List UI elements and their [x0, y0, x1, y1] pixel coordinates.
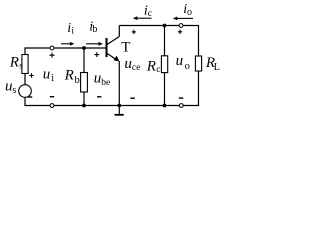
svg-text:b: b [92, 24, 97, 35]
transistor T [107, 36, 120, 60]
polarity + of u_s [29, 73, 33, 77]
wire left branch vertical [24, 47, 26, 106]
svg-text:u: u [176, 53, 184, 69]
resistor R_s [22, 55, 28, 74]
wire emitter drop [118, 61, 120, 106]
node: output terminal top [179, 24, 183, 28]
svg-text:b: b [75, 75, 80, 86]
svg-text:s: s [12, 85, 16, 96]
current arrow i_i [61, 42, 74, 46]
emitter diagonal [107, 53, 117, 60]
emitter arrowhead [114, 56, 120, 62]
svg-text:L: L [214, 62, 220, 73]
svg-text:be: be [101, 78, 110, 88]
polarity + of u_ce [132, 30, 136, 34]
wire collector riser [118, 26, 120, 37]
polarity + of u_i [49, 53, 54, 58]
node: junction dot R_c bottom [163, 104, 167, 108]
node: junction dot R_c top [163, 24, 167, 28]
svg-text:u: u [94, 70, 102, 86]
node: junction dot emitter/ground [117, 104, 121, 108]
ground [115, 106, 124, 115]
wire R_b branch [83, 48, 85, 106]
svg-text:u: u [5, 78, 13, 94]
svg-text:c: c [156, 65, 160, 75]
node: output terminal bottom [179, 104, 183, 108]
resistor R_b [81, 73, 88, 93]
polarity - of u_i [50, 96, 54, 98]
resistor R_L [195, 56, 201, 71]
base bar [106, 38, 108, 57]
polarity + of u_be [94, 52, 99, 57]
wire top-right rail [119, 25, 198, 27]
svg-text:R: R [146, 58, 156, 74]
svg-text:s: s [19, 62, 23, 72]
source u_s [19, 85, 32, 98]
wire R_L branch [198, 25, 200, 106]
polarity - of u_o [179, 97, 183, 99]
wire bottom rail [25, 105, 199, 107]
polarity - of u_s [28, 96, 32, 98]
svg-text:u: u [43, 67, 51, 83]
current arrow i_c (points left) [133, 16, 152, 20]
polarity - of u_be [97, 96, 101, 98]
svg-text:c: c [148, 9, 152, 19]
svg-text:o: o [185, 61, 190, 72]
wire R_c branch [164, 26, 166, 106]
polarity - of u_ce [130, 97, 134, 99]
node: input terminal bottom [50, 104, 54, 108]
node: input terminal top [50, 46, 54, 50]
svg-text:R: R [64, 68, 74, 84]
svg-text:T: T [121, 39, 130, 55]
svg-text:u: u [124, 56, 131, 72]
node: junction dot R_b bottom [82, 104, 86, 108]
svg-text:ce: ce [132, 63, 140, 73]
svg-text:i: i [51, 73, 54, 84]
svg-text:R: R [9, 55, 19, 71]
svg-text:i: i [71, 26, 74, 36]
resistor R_c [161, 56, 167, 73]
svg-text:o: o [187, 7, 192, 18]
wire top-left rail [25, 47, 106, 49]
polarity + of u_o [178, 30, 182, 34]
current arrow i_o (points left) [173, 17, 193, 21]
node: junction dot R_b top [82, 46, 86, 50]
current arrow i_b [86, 42, 103, 46]
collector diagonal [107, 36, 120, 45]
